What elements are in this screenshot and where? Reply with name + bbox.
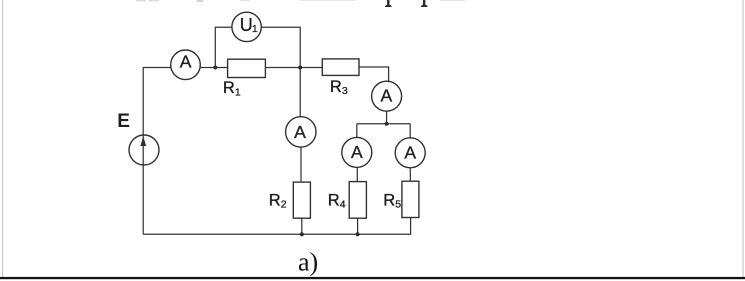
wire: left rail: [142, 68, 144, 235]
wire: A3 to node C: [386, 111, 388, 124]
resistor R4: [349, 182, 366, 219]
label R4: [328, 191, 346, 210]
svg-text:4: 4: [340, 199, 346, 211]
voltmeter U1: [232, 12, 261, 41]
wire: R5 to bottom rail: [410, 218, 412, 235]
ammeter A1: [171, 50, 201, 80]
wire: R4 to bottom rail: [357, 218, 359, 234]
label R3: [330, 78, 348, 97]
svg-text:A: A: [381, 85, 393, 105]
resistor R1: [228, 59, 266, 77]
svg-text:R: R: [328, 191, 340, 209]
ammeter A4: [342, 137, 372, 167]
wire: U1 branch left riser: [215, 27, 232, 67]
wire: A2 to R2: [300, 147, 302, 182]
wire: R2 to bottom rail: [301, 218, 303, 234]
right page border: [742, 0, 745, 278]
svg-text:E: E: [117, 111, 130, 132]
wire: left drop to A4: [356, 124, 358, 138]
ammeter A3: [372, 81, 402, 111]
svg-text:A: A: [180, 51, 192, 71]
svg-text:1: 1: [252, 23, 258, 35]
wire: R3 to corner down to A3: [359, 67, 389, 82]
wire: node B down to A2: [299, 68, 301, 118]
wire: branch bar at node C: [357, 123, 410, 125]
junction node F (R4 bottom): [356, 232, 360, 236]
resistor R5: [402, 181, 419, 217]
label R5: [383, 191, 401, 210]
svg-text:5: 5: [395, 199, 401, 211]
wire: bottom rail: [143, 233, 411, 235]
ammeter A2: [286, 117, 316, 147]
left page border: [1, 0, 4, 278]
junction node C (below A3): [385, 122, 389, 126]
wire: A4 to R4: [356, 167, 358, 181]
label R1: [223, 79, 241, 98]
junction node D (R2 bottom): [300, 232, 304, 236]
cropped text faint remnants: [136, 0, 465, 2]
label E: [117, 111, 130, 132]
wire: right drop to A5: [409, 124, 411, 138]
bottom page rule: [0, 277, 745, 279]
caption a): [298, 248, 318, 277]
svg-text:2: 2: [281, 199, 287, 211]
wire: A5 to R5: [409, 168, 411, 182]
wire: top left segment: [143, 67, 171, 69]
label R2: [269, 191, 287, 210]
source E: [129, 135, 159, 165]
ammeter A5: [395, 138, 425, 168]
svg-text:1: 1: [235, 87, 241, 99]
svg-text:a): a): [298, 248, 318, 277]
svg-text:R: R: [330, 78, 342, 96]
svg-text:R: R: [223, 79, 235, 97]
svg-text:3: 3: [342, 85, 348, 97]
wire: A1 to R1: [200, 67, 228, 69]
cropped text line descender 2: [421, 0, 428, 7]
svg-text:R: R: [383, 191, 395, 209]
svg-text:U: U: [240, 15, 253, 35]
svg-text:R: R: [269, 191, 281, 209]
svg-text:A: A: [404, 142, 416, 162]
wire: U1 branch right riser: [261, 27, 300, 67]
resistor R3: [322, 59, 359, 76]
junction node A (left of R1): [213, 66, 217, 70]
svg-text:A: A: [294, 122, 306, 142]
resistor R2: [293, 182, 310, 218]
svg-text:A: A: [351, 142, 363, 162]
cropped text line descender 1: [385, 0, 392, 7]
junction node B (right of R1): [298, 66, 302, 70]
wire: R1 to R3: [265, 67, 322, 69]
